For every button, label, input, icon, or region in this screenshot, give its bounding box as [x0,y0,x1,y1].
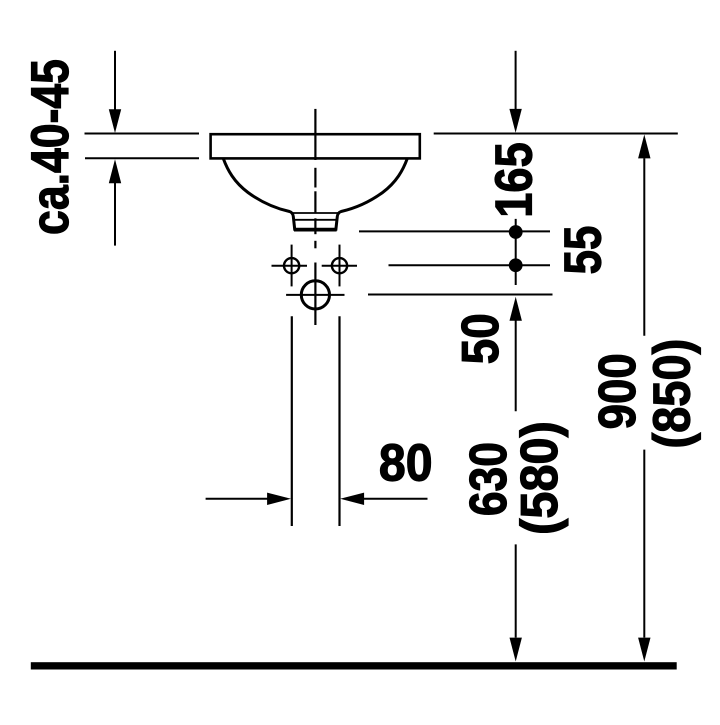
counter top line left [85,133,200,135]
dim 80 left arrow [206,493,291,505]
dim 80 right arrow [340,493,427,505]
dim 165 arrow down [509,51,521,133]
dot 1 [509,225,523,239]
faucet hole right [332,258,347,273]
svg-text:ca.40-45: ca.40-45 [21,59,79,235]
pipe right line [338,316,340,526]
svg-text:50: 50 [453,313,510,364]
counter bottom line left [85,157,199,159]
drain hole crosshair [286,294,344,296]
drain flange line 1 [293,212,339,214]
ref line drain [368,294,553,296]
900 line lower with floor arrow [638,450,650,662]
dim 900 arrow up [638,135,650,336]
svg-text:165: 165 [486,142,544,217]
faucet hole left [284,258,299,273]
floor line [31,662,677,669]
dim line ca.40-45 lower [109,159,121,245]
faucet hole left crosshair [291,245,293,287]
ref line dot2 [389,264,551,266]
drain hole [301,281,329,309]
dim 50 arrow up + 630 line upper [510,297,522,412]
dot 2 [509,258,523,272]
dim line ca.40-45 upper [109,51,121,133]
ref line dot1 [359,230,550,232]
630 line lower with floor arrow [510,544,522,661]
ref line 165 top [434,133,678,135]
svg-text:900: 900 [589,353,646,429]
sink rim [211,134,420,158]
bowl outline [223,159,407,230]
dots line [515,219,517,285]
svg-text:55: 55 [554,226,612,275]
drain bottom [294,229,337,232]
svg-text:(580): (580) [510,421,569,535]
center line [314,109,316,325]
svg-text:80: 80 [379,434,433,492]
drain flange line 2 [293,219,338,221]
pipe left line [291,316,293,526]
svg-text:(850): (850) [642,339,701,449]
faucet hole right crosshair [339,245,341,287]
